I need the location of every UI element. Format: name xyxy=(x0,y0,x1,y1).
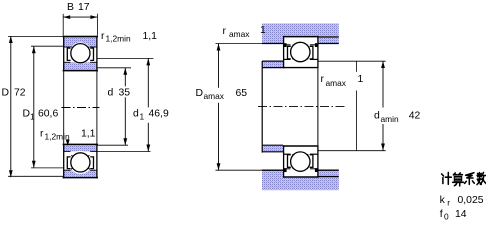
svg-text:60,6: 60,6 xyxy=(38,109,58,120)
svg-text:1: 1 xyxy=(358,74,364,85)
svg-text:r: r xyxy=(101,31,105,42)
svg-text:amax: amax xyxy=(204,91,225,101)
svg-text:r: r xyxy=(40,129,44,140)
svg-text:D: D xyxy=(2,88,10,99)
svg-text:r: r xyxy=(447,198,450,208)
svg-text:65: 65 xyxy=(236,88,248,99)
svg-text:d: d xyxy=(108,88,114,99)
svg-text:0,025: 0,025 xyxy=(458,195,484,206)
svg-text:d: d xyxy=(374,111,380,122)
svg-text:d: d xyxy=(133,109,139,120)
svg-text:1,1: 1,1 xyxy=(143,31,158,42)
svg-text:17: 17 xyxy=(78,2,90,13)
svg-text:72: 72 xyxy=(14,88,26,99)
svg-text:0: 0 xyxy=(444,212,449,222)
svg-text:k: k xyxy=(440,195,446,206)
svg-text:1: 1 xyxy=(140,112,145,122)
svg-text:B: B xyxy=(67,2,74,13)
svg-text:14: 14 xyxy=(455,209,467,220)
svg-text:1,1: 1,1 xyxy=(81,129,96,140)
svg-text:1,2min: 1,2min xyxy=(106,34,131,44)
svg-text:amin: amin xyxy=(381,114,399,124)
svg-text:35: 35 xyxy=(119,88,131,99)
svg-text:1: 1 xyxy=(30,112,35,122)
svg-text:f: f xyxy=(440,209,443,220)
svg-text:r: r xyxy=(223,26,227,37)
svg-text:42: 42 xyxy=(409,111,421,122)
svg-text:amax: amax xyxy=(229,29,250,39)
svg-text:D: D xyxy=(196,88,204,99)
svg-text:1: 1 xyxy=(260,25,266,36)
svg-text:46,9: 46,9 xyxy=(149,109,169,120)
svg-text:D: D xyxy=(23,109,31,120)
svg-text:r: r xyxy=(321,74,325,85)
svg-text:amax: amax xyxy=(326,78,347,88)
